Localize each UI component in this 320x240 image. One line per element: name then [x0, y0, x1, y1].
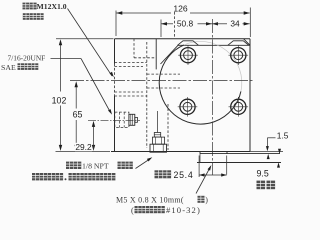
hidden bore line left [146, 42, 148, 148]
vertical centerline [212, 19, 214, 175]
label 可选M12X1.0 [23, 2, 67, 11]
svg-text:126: 126 [173, 4, 188, 14]
valve body bottom edge [111, 151, 250, 153]
svg-text:1.5: 1.5 [277, 130, 289, 140]
valve body left edge upper [114, 39, 116, 64]
bolt hole bottom-right [229, 97, 249, 117]
svg-text:M5 X 0.8 X 10mm(: M5 X 0.8 X 10mm( [116, 196, 184, 205]
stroke end line [197, 162, 281, 164]
svg-text:50.8: 50.8 [177, 19, 194, 29]
leader M5 thread [196, 165, 211, 194]
label also accepts #10-32 [131, 205, 201, 215]
svg-text:#10-32): #10-32) [166, 205, 201, 215]
svg-text:34: 34 [230, 19, 240, 29]
label 直径25.4 [155, 170, 194, 180]
dimension 29.2 [75, 121, 95, 152]
svg-text:7/16-20UNF: 7/16-20UNF [8, 53, 46, 62]
dimension 34 [212, 19, 250, 29]
dimension 9.5 stroke (行程) [257, 149, 282, 189]
hidden step box horizontal [134, 57, 156, 59]
label M5 X 0.8 X 10mm deep [116, 196, 208, 205]
hidden bore upper line [147, 73, 180, 75]
bolt hole bottom-left [178, 97, 198, 117]
bore circle faint arc [184, 41, 242, 91]
svg-text:M12X1.0: M12X1.0 [37, 2, 67, 11]
svg-text:65: 65 [73, 110, 83, 120]
label 装上歧管选择板式安装 [32, 173, 115, 180]
bolt hole top-right [229, 45, 249, 65]
M12 port hidden inner bottom [115, 91, 144, 93]
bore circle main arc [159, 45, 241, 124]
bolt hole top-left [178, 45, 198, 65]
leader SAE port [51, 59, 113, 115]
SAE fitting (7/16-20UNF plug) [115, 112, 138, 127]
hidden bore line right [167, 104, 169, 150]
label 拿掉1/8 NPT塞栓 [66, 162, 133, 171]
valve body left edge port opening (hidden) [114, 64, 116, 97]
label 7/16-20UNF [8, 53, 46, 62]
1/8 NPT plug at bottom [150, 133, 167, 153]
dimension 1.5 [266, 130, 289, 159]
leader M12 option [68, 9, 114, 78]
valve body left edge lower [114, 96, 116, 152]
label SAE 进油口 [1, 63, 38, 72]
label 接近阀 [23, 13, 44, 20]
svg-text:9.5: 9.5 [257, 168, 269, 178]
NPT plug stem line [157, 111, 159, 133]
pin left edge [199, 152, 201, 163]
svg-text:SAE: SAE [1, 63, 16, 72]
mounting boss line [178, 44, 250, 46]
svg-text:): ) [205, 196, 208, 205]
boss trapezoid top-left hole [178, 41, 199, 46]
dimension 126 top [116, 4, 250, 37]
hidden line above plate [174, 12, 176, 38]
svg-text:25.4: 25.4 [174, 170, 194, 180]
leader NPT plug [136, 157, 153, 168]
SAE port centerline / 29.2 extension [88, 119, 140, 121]
M12 port hidden outer bottom [115, 95, 147, 97]
top-right corner chamfer [244, 39, 251, 46]
M12 port hidden inner top [115, 66, 144, 68]
svg-text:1/8 NPT: 1/8 NPT [82, 162, 109, 171]
boss trapezoid top-right hole [228, 41, 249, 46]
svg-text:102: 102 [52, 96, 67, 106]
dimension 102 [52, 39, 114, 152]
horizontal centerline [70, 79, 254, 81]
dimension 65 [73, 81, 83, 151]
flange step vertical [155, 39, 157, 70]
hidden bore lower line [147, 87, 180, 89]
pin right edge [226, 152, 228, 154]
valve body right edge [249, 39, 251, 152]
dimension 50.8 [161, 19, 212, 37]
pin bottom line (1.5 offset) [200, 153, 280, 155]
valve body top edge [115, 38, 251, 40]
svg-text:29.2: 29.2 [75, 142, 92, 152]
left chamfer line [161, 45, 179, 64]
hidden step box vertical [133, 39, 135, 58]
M12 port hidden outer top [115, 62, 147, 64]
bottom edge right extension [250, 151, 283, 153]
dimension lines dia 25.4 [199, 156, 227, 178]
svg-text:(: ( [131, 206, 134, 215]
